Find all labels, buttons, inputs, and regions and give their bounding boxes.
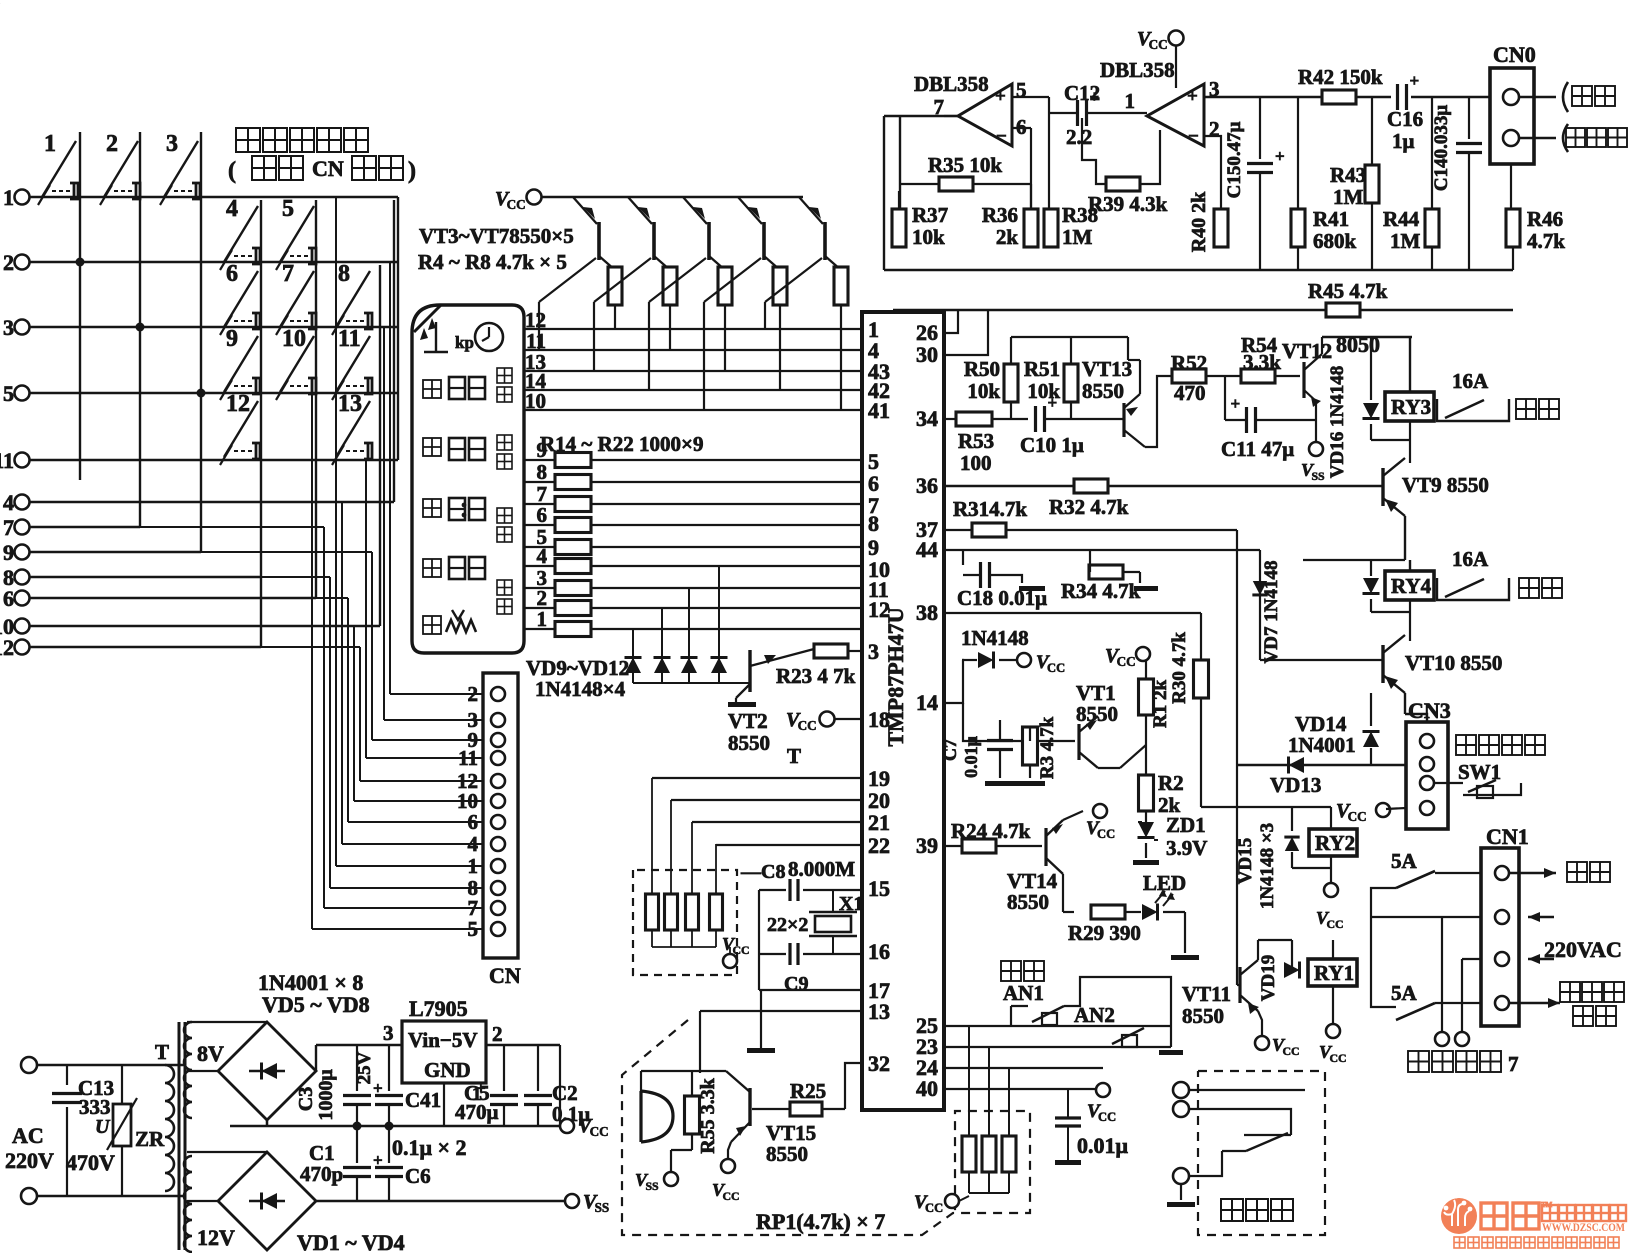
svg-text:VT12: VT12 (1282, 339, 1332, 363)
svg-text:470p: 470p (300, 1162, 343, 1186)
svg-text:2: 2 (1209, 117, 1220, 141)
svg-text:R37: R37 (912, 203, 948, 227)
svg-text:40: 40 (916, 1076, 938, 1101)
svg-text:+: + (1410, 71, 1420, 90)
svg-text:(: ( (228, 158, 236, 184)
svg-text:2: 2 (3, 250, 14, 275)
svg-text:SS: SS (1311, 469, 1325, 483)
svg-text:16A: 16A (1452, 369, 1489, 393)
svg-text:kp: kp (455, 333, 474, 352)
svg-text:R44: R44 (1383, 207, 1420, 231)
svg-text:CC: CC (1329, 1051, 1346, 1065)
svg-text:4.7k: 4.7k (1527, 229, 1565, 253)
svg-text:ZD1: ZD1 (1166, 813, 1206, 837)
svg-text:1M: 1M (1333, 185, 1364, 209)
svg-text:1: 1 (44, 131, 56, 157)
svg-text:T: T (787, 744, 801, 768)
svg-text:1: 1 (1125, 89, 1136, 113)
svg-text:+: + (1187, 86, 1198, 107)
svg-text:18: 18 (868, 707, 890, 732)
svg-text:VT3~VT78550×5: VT3~VT78550×5 (419, 224, 574, 248)
svg-text:15: 15 (868, 876, 890, 901)
svg-text:R3 4.7k: R3 4.7k (1037, 716, 1058, 779)
svg-text:U: U (95, 1116, 111, 1138)
svg-text:2: 2 (106, 131, 118, 157)
svg-text:SS: SS (645, 1179, 659, 1193)
svg-text:11: 11 (338, 326, 361, 352)
svg-text:RY4: RY4 (1391, 574, 1432, 598)
svg-text:680k: 680k (1313, 229, 1357, 253)
svg-text:R14 ~ R22 1000×9: R14 ~ R22 1000×9 (540, 432, 703, 456)
svg-text:CC: CC (507, 197, 526, 212)
svg-text:34: 34 (916, 406, 938, 431)
svg-text:RP1(4.7k) × 7: RP1(4.7k) × 7 (756, 1209, 885, 1234)
svg-text:VT2: VT2 (728, 709, 768, 733)
svg-text:RY1: RY1 (1314, 961, 1354, 985)
svg-text:CC: CC (1097, 827, 1115, 841)
svg-text:T: T (155, 1040, 169, 1064)
svg-text:5: 5 (282, 196, 294, 222)
svg-text:AC: AC (12, 1123, 44, 1148)
svg-text:R41: R41 (1313, 207, 1349, 231)
svg-text:2k: 2k (996, 225, 1019, 249)
svg-text:R46: R46 (1527, 207, 1563, 231)
svg-text:R32 4.7k: R32 4.7k (1049, 495, 1129, 519)
svg-text:R23 4 7k: R23 4 7k (776, 664, 856, 688)
svg-text:6: 6 (468, 810, 479, 834)
svg-text:R34 4.7k: R34 4.7k (1061, 579, 1141, 603)
svg-text:470μ: 470μ (455, 1100, 499, 1124)
svg-text:CC: CC (1282, 1044, 1299, 1058)
svg-text:CC: CC (1348, 809, 1367, 824)
svg-text:R42 150k: R42 150k (1298, 65, 1383, 89)
svg-text:CC: CC (1047, 661, 1065, 675)
svg-text:2: 2 (468, 682, 479, 706)
svg-text:6: 6 (226, 261, 238, 287)
svg-text:3.3k: 3.3k (1243, 350, 1281, 374)
svg-text:21: 21 (868, 810, 890, 835)
svg-text:1N4148×4: 1N4148×4 (535, 677, 626, 701)
svg-text:R40 2k: R40 2k (1188, 191, 1210, 252)
svg-text:9: 9 (3, 540, 14, 565)
svg-text:13: 13 (338, 391, 362, 417)
svg-text:R2: R2 (1158, 771, 1184, 795)
svg-text:2.2: 2.2 (1066, 125, 1092, 149)
svg-text:R38: R38 (1062, 203, 1098, 227)
svg-text:3: 3 (3, 315, 14, 340)
svg-text:12: 12 (0, 635, 14, 660)
svg-text:VT13: VT13 (1082, 357, 1132, 381)
svg-text:): ) (408, 158, 416, 184)
svg-text:CC: CC (1098, 1110, 1116, 1124)
svg-text:—C8: —C8 (740, 861, 785, 883)
svg-text:C3: C3 (295, 1087, 317, 1111)
svg-text:+: + (1048, 393, 1058, 412)
svg-text:LED: LED (1143, 871, 1186, 895)
svg-text:CC: CC (722, 1189, 739, 1203)
svg-text:4: 4 (468, 832, 479, 856)
svg-text:+: + (995, 86, 1006, 107)
svg-text:R55 3.3k: R55 3.3k (697, 1077, 719, 1153)
svg-text:6: 6 (3, 586, 14, 611)
svg-text:8550: 8550 (1076, 702, 1118, 726)
svg-text:1μ: 1μ (1392, 129, 1415, 153)
svg-text:8.000M: 8.000M (788, 857, 855, 881)
svg-text:Vin−5V: Vin−5V (408, 1028, 478, 1052)
svg-text:39: 39 (916, 833, 938, 858)
svg-text:5A: 5A (1391, 849, 1418, 873)
svg-text:CN: CN (489, 963, 521, 988)
svg-text:CC: CC (1326, 917, 1343, 931)
svg-text:C18 0.01μ: C18 0.01μ (957, 586, 1047, 610)
svg-text:VD1 ~ VD4: VD1 ~ VD4 (297, 1230, 405, 1253)
svg-text:1N4001: 1N4001 (1288, 733, 1356, 757)
svg-text:RY2: RY2 (1315, 831, 1355, 855)
svg-text:3: 3 (166, 131, 178, 157)
svg-text:30: 30 (916, 342, 938, 367)
svg-text:VT11: VT11 (1182, 982, 1231, 1006)
svg-text:R53: R53 (958, 429, 994, 453)
svg-text:8550: 8550 (1182, 1004, 1224, 1028)
svg-text:1N4148: 1N4148 (961, 626, 1029, 650)
svg-text:VD13: VD13 (1270, 773, 1321, 797)
svg-text:220V: 220V (5, 1148, 54, 1173)
svg-text:R52: R52 (1171, 351, 1207, 375)
svg-text:220VAC: 220VAC (1544, 937, 1622, 962)
svg-text:VD16 1N4148: VD16 1N4148 (1327, 366, 1348, 478)
svg-text:AN2: AN2 (1074, 1003, 1115, 1027)
svg-text:C150.47μ: C150.47μ (1224, 121, 1245, 198)
svg-text:8: 8 (537, 460, 548, 484)
svg-text:−: − (1188, 126, 1199, 147)
svg-text:3.9V: 3.9V (1166, 836, 1207, 860)
svg-text:5: 5 (468, 917, 479, 941)
svg-text:VT10 8550: VT10 8550 (1405, 651, 1502, 675)
svg-text:VT9 8550: VT9 8550 (1402, 473, 1489, 497)
svg-text:+: + (1090, 87, 1100, 106)
svg-text:WWW.DZSC.COM: WWW.DZSC.COM (1542, 1220, 1625, 1234)
svg-text:100: 100 (960, 451, 992, 475)
svg-text:1N4148 ×3: 1N4148 ×3 (1257, 823, 1278, 909)
svg-text:4: 4 (226, 196, 238, 222)
svg-text:CC: CC (925, 1201, 943, 1215)
svg-text:R36: R36 (982, 203, 1018, 227)
svg-text:CC: CC (732, 943, 749, 957)
svg-text:38: 38 (916, 600, 938, 625)
svg-text:+: + (1275, 147, 1285, 166)
svg-text:VD7 1N4148: VD7 1N4148 (1261, 561, 1282, 664)
svg-text:44: 44 (916, 537, 938, 562)
svg-text:0.1μ × 2: 0.1μ × 2 (392, 1135, 467, 1160)
svg-text:8050: 8050 (1336, 332, 1380, 357)
svg-text:7: 7 (3, 515, 14, 540)
svg-text:6: 6 (537, 503, 548, 527)
svg-text:R1 2k: R1 2k (1150, 680, 1171, 728)
svg-text:8V: 8V (197, 1041, 224, 1066)
svg-text:12V: 12V (197, 1225, 235, 1250)
svg-text:4: 4 (3, 490, 14, 515)
svg-text:DBL358: DBL358 (1100, 58, 1175, 82)
svg-text:VD15: VD15 (1235, 838, 1256, 884)
svg-text:C140.033μ: C140.033μ (1431, 105, 1452, 191)
svg-text:8550: 8550 (728, 731, 770, 755)
svg-text:1: 1 (3, 185, 14, 210)
svg-text:R30 4.7k: R30 4.7k (1169, 632, 1190, 704)
svg-text:R39 4.3k: R39 4.3k (1088, 192, 1168, 216)
svg-text:CN1: CN1 (1486, 824, 1529, 849)
svg-text:C16: C16 (1387, 107, 1423, 131)
svg-text:0.01μ: 0.01μ (1077, 1133, 1129, 1158)
svg-text:CC: CC (1149, 37, 1168, 52)
svg-text:R29 390: R29 390 (1068, 921, 1141, 945)
svg-text:13: 13 (868, 999, 890, 1024)
svg-text:3: 3 (383, 1021, 394, 1045)
svg-text:9: 9 (226, 326, 238, 352)
svg-text:SS: SS (595, 1200, 610, 1215)
svg-text:R4 ~ R8 4.7k × 5: R4 ~ R8 4.7k × 5 (418, 250, 567, 274)
svg-text:4: 4 (537, 544, 548, 568)
svg-text:1: 1 (468, 854, 479, 878)
svg-text:11: 11 (0, 448, 14, 473)
svg-text:11: 11 (458, 746, 478, 770)
svg-text:5: 5 (3, 381, 14, 406)
svg-text:1M: 1M (1062, 225, 1093, 249)
svg-text:10k: 10k (912, 225, 945, 249)
svg-text:41: 41 (868, 398, 890, 423)
svg-text:R43: R43 (1330, 163, 1366, 187)
svg-text:CN3: CN3 (1408, 698, 1451, 723)
svg-text:14: 14 (916, 690, 938, 715)
svg-text:5A: 5A (1391, 981, 1418, 1005)
svg-text:−: − (996, 126, 1007, 147)
svg-text:36: 36 (916, 473, 938, 498)
svg-text:16A: 16A (1452, 547, 1489, 571)
svg-text:8550: 8550 (1007, 890, 1049, 914)
svg-text:25V: 25V (354, 1051, 375, 1084)
svg-text:8550: 8550 (766, 1142, 808, 1166)
svg-text:16: 16 (868, 939, 890, 964)
svg-text:8: 8 (338, 261, 350, 287)
svg-text:VD5 ~ VD8: VD5 ~ VD8 (262, 992, 370, 1017)
svg-text:VD19: VD19 (1258, 955, 1279, 1001)
svg-text:R35 10k: R35 10k (928, 153, 1002, 177)
svg-text:CC: CC (798, 718, 817, 733)
svg-text:0.01μ: 0.01μ (961, 736, 981, 778)
svg-text:CC: CC (1117, 654, 1136, 669)
svg-text:5: 5 (1016, 78, 1027, 102)
svg-text:+: + (1231, 394, 1241, 413)
svg-text:CN0: CN0 (1493, 42, 1536, 67)
svg-text:C6: C6 (405, 1164, 431, 1188)
svg-text:470V: 470V (66, 1150, 115, 1175)
svg-text:7: 7 (1508, 1052, 1519, 1076)
svg-text:AN1: AN1 (1003, 981, 1044, 1005)
svg-text:1000μ: 1000μ (315, 1069, 337, 1121)
svg-text:12: 12 (226, 391, 250, 417)
svg-text:10: 10 (525, 389, 546, 413)
svg-text:L7905: L7905 (409, 996, 468, 1021)
svg-text:CC: CC (590, 1124, 609, 1139)
svg-text:GND: GND (424, 1058, 471, 1082)
svg-text:ZR: ZR (135, 1127, 165, 1151)
svg-text:R51: R51 (1024, 357, 1060, 381)
svg-text:7: 7 (282, 261, 294, 287)
svg-text:C41: C41 (405, 1088, 441, 1112)
svg-text:12: 12 (868, 597, 890, 622)
svg-text:CN: CN (312, 156, 344, 181)
svg-text:R45 4.7k: R45 4.7k (1308, 279, 1388, 303)
svg-text:22: 22 (868, 833, 890, 858)
svg-text:32: 32 (868, 1051, 890, 1076)
svg-text:470: 470 (1174, 381, 1206, 405)
svg-text:8550: 8550 (1082, 379, 1124, 403)
svg-text:R25: R25 (790, 1079, 826, 1103)
svg-text:R50: R50 (964, 357, 1000, 381)
svg-text:10k: 10k (967, 379, 1000, 403)
svg-text:2: 2 (492, 1022, 503, 1046)
svg-text:C9: C9 (784, 973, 808, 995)
svg-text:3: 3 (868, 639, 879, 664)
svg-text:1M: 1M (1390, 229, 1421, 253)
svg-text:RY3: RY3 (1391, 395, 1431, 419)
svg-text:C7: C7 (940, 739, 960, 761)
svg-text:1: 1 (537, 607, 548, 631)
svg-text:C10 1μ: C10 1μ (1020, 433, 1084, 457)
svg-text:22×2: 22×2 (767, 914, 808, 936)
svg-text:DBL358: DBL358 (914, 72, 989, 96)
svg-text:10: 10 (282, 326, 306, 352)
svg-text:8: 8 (868, 511, 879, 536)
svg-text:R314.7k: R314.7k (953, 497, 1027, 521)
svg-text:C11 47μ: C11 47μ (1221, 437, 1294, 461)
